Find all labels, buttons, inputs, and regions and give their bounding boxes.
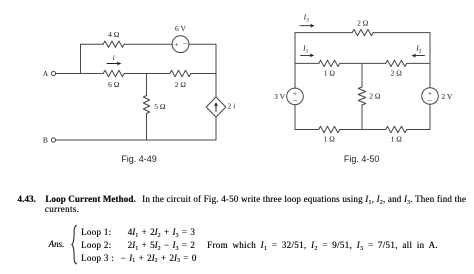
- loop equation row 1 label: [81, 227, 111, 237]
- wire: 5ohm lower lead: [146, 114, 148, 141]
- wire: middle row center: [340, 62, 386, 64]
- wire: Fig4-49 top-left segment: [81, 43, 104, 45]
- resistor 1ohm middle row: [319, 60, 340, 66]
- wire: left vertical top: [294, 33, 296, 89]
- svg-text:1 Ω: 1 Ω: [391, 134, 403, 143]
- resistor 2ohm top (Fig 4-50): [352, 29, 373, 35]
- voltage source 6V: [172, 36, 189, 53]
- wire: bottom row Fig 4-49: [56, 139, 216, 141]
- dependent source arrow (up): [215, 105, 217, 112]
- svg-text:2 i: 2 i: [228, 102, 236, 111]
- loop equation row 3: [121, 253, 197, 263]
- wire: top between 4ohm and 6V source: [124, 43, 172, 45]
- svg-text:1 Ω: 1 Ω: [324, 134, 336, 143]
- node B terminal: [51, 138, 55, 142]
- svg-text:5 Ω: 5 Ω: [154, 102, 166, 111]
- problem heading: [45, 194, 135, 204]
- brace for answer block: [72, 225, 77, 264]
- svg-text:i: i: [113, 53, 115, 62]
- wire: center vertical upper lead: [361, 63, 363, 87]
- svg-text:+: +: [174, 40, 178, 49]
- current arrow I2 (pointing left): [415, 55, 425, 57]
- svg-text:6 Ω: 6 Ω: [108, 80, 120, 89]
- svg-text:−: −: [293, 96, 298, 105]
- wire: middle row right lead: [407, 62, 430, 64]
- svg-text:2 Ω: 2 Ω: [391, 69, 403, 78]
- problem number 4.43: [17, 194, 36, 204]
- loop equation row 2: [128, 240, 195, 250]
- wire: top row right: [373, 32, 430, 34]
- node A terminal: [51, 71, 55, 75]
- resistor 5ohm: [143, 96, 149, 114]
- svg-text:1 Ω: 1 Ω: [324, 69, 336, 78]
- svg-text:4 Ω: 4 Ω: [108, 30, 120, 39]
- loop equation row 2 label: [81, 240, 111, 250]
- loop equation row 1: [128, 227, 195, 237]
- wire: bottom row center: [340, 129, 386, 131]
- wire: top right of 6V: [189, 43, 216, 45]
- resistor 1ohm bottom left: [319, 126, 340, 132]
- Ans. label: [49, 239, 65, 249]
- resistor 6ohm: [103, 70, 124, 76]
- wire: bottom row left lead: [295, 129, 319, 131]
- resistor 1ohm bottom right: [386, 126, 407, 132]
- svg-text:2 Ω: 2 Ω: [357, 19, 369, 28]
- svg-text:2 Ω: 2 Ω: [175, 80, 187, 89]
- wire: center vertical lower lead: [361, 105, 363, 130]
- svg-text:B: B: [43, 136, 48, 145]
- svg-text:−: −: [428, 96, 433, 105]
- current arrow i (Fig 4-49): [107, 63, 119, 65]
- wire: 2ohm to right vertical: [191, 73, 216, 75]
- svg-text:I2: I2: [415, 44, 422, 55]
- wire: left vertical joining top row to node A row: [80, 44, 82, 73]
- From which ...: [207, 240, 438, 250]
- wire: right vertical bottom: [429, 104, 431, 129]
- current arrow I1: [301, 54, 312, 56]
- wire: right vertical top: [429, 33, 431, 88]
- svg-text:A: A: [43, 69, 49, 78]
- svg-text:6 V: 6 V: [175, 24, 186, 33]
- voltage source 2V: [422, 88, 439, 105]
- svg-text:I1: I1: [302, 44, 309, 55]
- resistor 2ohm middle row: [386, 60, 407, 66]
- svg-text:2 V: 2 V: [441, 92, 452, 101]
- voltage source 3V: [287, 88, 304, 105]
- wire: left vertical bottom: [294, 105, 296, 130]
- svg-text:−: −: [183, 40, 188, 49]
- wire: Fig4-50 top row left: [295, 32, 352, 34]
- wire: diamond to bottom: [215, 117, 217, 140]
- resistor 4ohm: [103, 41, 124, 47]
- wire: 5ohm upper lead: [146, 74, 148, 96]
- svg-text:I3: I3: [303, 13, 310, 24]
- resistor 2ohm vertical (Fig 4-50): [358, 87, 366, 105]
- wire: right vertical from top row to dependent source: [215, 44, 217, 97]
- current arrow I3: [300, 25, 312, 27]
- wire: middle row left lead: [295, 62, 319, 64]
- resistor 2ohm (Fig 4-49): [170, 70, 191, 76]
- dependent source 2i diamond: [206, 97, 226, 117]
- wire: A terminal to 6ohm: [56, 73, 104, 75]
- problem statement line 2: [45, 204, 79, 214]
- loop equation row 3 label: [81, 253, 114, 263]
- wire: bottom row right lead: [407, 129, 430, 131]
- problem statement line 1: [142, 194, 466, 204]
- svg-text:2 Ω: 2 Ω: [369, 92, 381, 101]
- svg-text:Fig. 4-49: Fig. 4-49: [121, 154, 157, 164]
- svg-text:3 V: 3 V: [274, 92, 285, 101]
- svg-text:Fig. 4-50: Fig. 4-50: [344, 154, 380, 164]
- wire: 6ohm to 2ohm with junction for 5ohm: [124, 73, 170, 75]
